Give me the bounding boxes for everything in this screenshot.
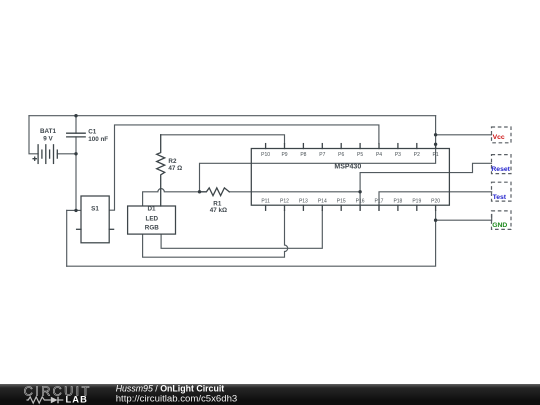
node B R1/P16/Reset bbox=[358, 190, 361, 193]
wire D1 bottom-right to P14 bbox=[161, 210, 322, 248]
footer url line bbox=[116, 394, 238, 405]
wire D1 top-left pin with hop over R2 lead bbox=[143, 189, 200, 206]
node GND branch bbox=[434, 219, 437, 222]
svg-text:GND: GND bbox=[492, 222, 507, 229]
svg-text:LED: LED bbox=[145, 215, 158, 222]
svg-text:100 nF: 100 nF bbox=[88, 136, 108, 143]
svg-text:P10: P10 bbox=[261, 152, 270, 158]
svg-text:P1: P1 bbox=[433, 152, 439, 158]
svg-text:P19: P19 bbox=[412, 199, 421, 205]
logo resistor zigzag and diode bbox=[27, 397, 64, 404]
pin labels bottom row bbox=[261, 199, 440, 205]
net flag Vcc bbox=[492, 127, 512, 143]
wire battery right lead to C1 column bbox=[57, 153, 76, 155]
svg-text:47 Ω: 47 Ω bbox=[168, 165, 182, 172]
wire D1 bottom-left to P12 with hop over D1.BR rail bbox=[143, 210, 288, 257]
svg-text:P9: P9 bbox=[281, 152, 287, 158]
svg-text:RGB: RGB bbox=[145, 224, 159, 231]
wire R1 right to node B at P16 bbox=[229, 191, 360, 193]
battery BAT1 bbox=[33, 128, 57, 163]
svg-text:Test: Test bbox=[493, 194, 507, 201]
wire C1 top lead bbox=[75, 116, 77, 134]
pin labels top row bbox=[261, 152, 439, 158]
footer bar bbox=[0, 384, 540, 405]
svg-text:P20: P20 bbox=[431, 199, 440, 205]
svg-text:P16: P16 bbox=[356, 199, 365, 205]
pin stubs bottom P11..P20 bbox=[266, 205, 436, 210]
node S1 top-left bbox=[74, 209, 77, 212]
wire R2 top to P9 bbox=[161, 135, 285, 144]
wire S1 top-right pin up and over to P4 bbox=[109, 125, 379, 210]
wire Vcc branch bbox=[436, 134, 492, 136]
svg-text:Vcc: Vcc bbox=[493, 134, 505, 141]
svg-text:http://circuitlab.com/c5x6dh3: http://circuitlab.com/c5x6dh3 bbox=[116, 394, 238, 405]
node battery/C1 bottom bbox=[74, 152, 77, 155]
svg-text:P8: P8 bbox=[300, 152, 306, 158]
pin stubs top P10..P1 bbox=[266, 144, 436, 149]
svg-text:Reset: Reset bbox=[491, 166, 510, 173]
LED D1 bbox=[128, 206, 176, 234]
svg-text:MSP430: MSP430 bbox=[334, 163, 361, 170]
logo CIRCUIT text bbox=[24, 384, 92, 398]
net flag GND bbox=[492, 211, 512, 230]
net flag Test bbox=[492, 182, 512, 201]
svg-text:P12: P12 bbox=[280, 199, 289, 205]
svg-text:P11: P11 bbox=[261, 199, 270, 205]
svg-text:P17: P17 bbox=[375, 199, 384, 205]
svg-text:P3: P3 bbox=[395, 152, 401, 158]
wire bottom rail to P20 column bbox=[67, 210, 436, 266]
svg-text:9 V: 9 V bbox=[43, 136, 53, 143]
IC U1 MSP430 bbox=[251, 149, 449, 206]
node P1 stub bbox=[434, 143, 437, 146]
wire Test to P17 bbox=[379, 192, 492, 211]
svg-text:LAB: LAB bbox=[66, 395, 88, 405]
footer author line bbox=[116, 384, 225, 394]
svg-text:S1: S1 bbox=[91, 206, 99, 213]
svg-text:P2: P2 bbox=[414, 152, 420, 158]
svg-text:P15: P15 bbox=[337, 199, 346, 205]
resistor R2 bbox=[157, 135, 183, 206]
wire node D1/R1 up to long Vcc feeder bbox=[200, 116, 436, 192]
wire S1 top-left pin to left drop bbox=[67, 209, 81, 211]
svg-text:Hussm95 / OnLight Circuit: Hussm95 / OnLight Circuit bbox=[116, 384, 225, 394]
switch S1 bbox=[77, 196, 114, 243]
svg-text:47 kΩ: 47 kΩ bbox=[210, 207, 227, 214]
wire top rail from battery to P1 column bbox=[29, 115, 436, 117]
capacitor C1 bbox=[67, 129, 109, 143]
wire battery left vertical bbox=[29, 116, 38, 154]
svg-text:P13: P13 bbox=[299, 199, 308, 205]
svg-text:P14: P14 bbox=[318, 199, 327, 205]
resistor R1 bbox=[200, 188, 230, 214]
svg-text:P6: P6 bbox=[338, 152, 344, 158]
logo LAB text bbox=[66, 395, 88, 405]
wire P16 through node B up and over to Reset bbox=[360, 163, 491, 210]
wire left drop to bottom rail bbox=[66, 210, 68, 266]
net flag Reset bbox=[491, 155, 511, 174]
node Vcc branch bbox=[434, 133, 437, 136]
svg-text:C1: C1 bbox=[88, 129, 97, 136]
svg-text:P5: P5 bbox=[357, 152, 363, 158]
node D1/R1/feeder bbox=[198, 190, 201, 193]
wire C1 bottom lead down to S1 node bbox=[75, 137, 77, 211]
svg-text:P7: P7 bbox=[319, 152, 325, 158]
svg-text:P18: P18 bbox=[393, 199, 402, 205]
node battery/C1 top bbox=[74, 114, 77, 117]
svg-text:P4: P4 bbox=[376, 152, 382, 158]
svg-text:BAT1: BAT1 bbox=[40, 128, 56, 135]
wire GND branch bbox=[436, 214, 492, 220]
svg-text:D1: D1 bbox=[147, 206, 156, 213]
